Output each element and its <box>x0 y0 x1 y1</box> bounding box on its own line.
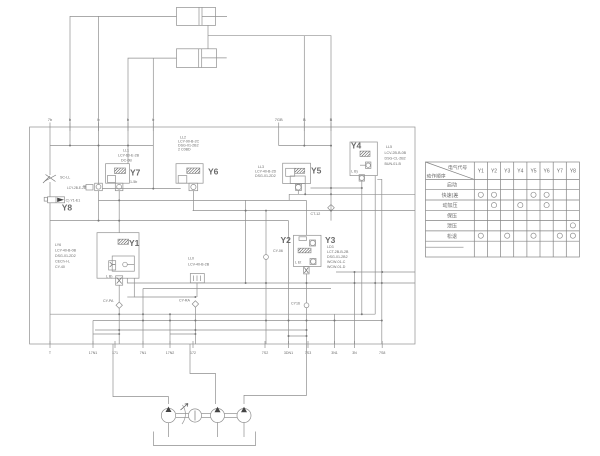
valve designator labels <box>62 141 362 213</box>
table circles <box>478 192 575 238</box>
svg-text:7S2: 7S2 <box>262 351 268 355</box>
wire mesh h220 <box>50 220 289 222</box>
component code labels upper <box>60 136 407 217</box>
svg-text:BUN-01-B: BUN-01-B <box>385 162 402 166</box>
valve block Y7 <box>106 164 130 184</box>
svg-text:CT-12: CT-12 <box>311 212 321 216</box>
svg-text:LCY-40-B-0B: LCY-40-B-0B <box>55 249 77 253</box>
svg-text:1-5b: 1-5b <box>130 180 137 184</box>
svg-text:T: T <box>49 351 52 355</box>
svg-text:保压: 保压 <box>447 212 457 219</box>
wire drop b4 <box>152 58 154 189</box>
svg-text:Y1: Y1 <box>478 169 484 175</box>
relief valve under Y3 <box>304 267 310 274</box>
valve block Y6 <box>176 164 203 184</box>
wire Y7 pilot left drop <box>98 191 100 221</box>
svg-text:Y2: Y2 <box>281 235 292 245</box>
junction dots group1 <box>69 145 363 222</box>
svg-text:b: b <box>152 117 155 122</box>
wire pump4 riser <box>244 330 307 404</box>
wire h297 left <box>127 296 134 298</box>
gauge CY-06 <box>264 211 269 344</box>
valve designator labels 2 <box>129 235 336 248</box>
gauge CY16 <box>304 200 309 330</box>
svg-text:CY-40: CY-40 <box>55 265 65 269</box>
check valve CY-RA <box>192 301 198 344</box>
tick b2 <box>127 123 129 132</box>
wire pump3 feed <box>190 344 216 404</box>
svg-text:Y8: Y8 <box>62 203 73 213</box>
svg-text:动加压: 动加压 <box>442 202 457 209</box>
svg-text:CY-06: CY-06 <box>273 249 283 253</box>
svg-text:LL1: LL1 <box>123 149 129 153</box>
svg-text:CECh-I-L: CECh-I-L <box>55 260 70 264</box>
wire 3N1 drop <box>334 314 336 344</box>
svg-text:Y4: Y4 <box>517 169 523 175</box>
svg-text:DSG-CL-2B2: DSG-CL-2B2 <box>385 157 406 161</box>
svg-text:LL5: LL5 <box>386 145 392 149</box>
relief valve under Y1 <box>116 276 123 285</box>
svg-text:LCY-40-B-2D: LCY-40-B-2D <box>255 170 277 174</box>
svg-text:Y1: Y1 <box>129 238 140 248</box>
svg-text:CY-PA: CY-PA <box>103 299 114 303</box>
wire mesh h210 <box>193 210 415 212</box>
wire Y7 pilot drop to Y1 <box>118 191 120 233</box>
table row labels <box>442 182 459 241</box>
svg-text:7N1: 7N1 <box>140 351 147 355</box>
svg-text:L B): L B) <box>351 170 357 174</box>
wire drop B <box>303 36 305 146</box>
wire CT-12 to 220 <box>330 211 332 221</box>
wire 3DN1 drop <box>288 221 290 344</box>
wire mesh h194 <box>289 194 415 200</box>
wire 7N1 drop <box>142 289 144 345</box>
wire Y1 to h297 <box>134 278 195 297</box>
svg-text:Y5: Y5 <box>311 166 322 176</box>
svg-text:7GB: 7GB <box>275 117 283 122</box>
tick b1 <box>98 123 100 132</box>
svg-text:b: b <box>127 117 130 122</box>
component code labels lower <box>55 170 358 306</box>
motor M <box>176 409 202 422</box>
check valve CY-PA <box>116 285 122 344</box>
wire mid drop <box>245 200 247 283</box>
svg-text:LY6: LY6 <box>55 243 61 247</box>
svg-text:3N: 3N <box>352 351 357 355</box>
wire h288 <box>143 288 331 290</box>
pilot valve Y6a <box>189 183 198 191</box>
tick B2 <box>330 123 332 132</box>
svg-text:Y5: Y5 <box>530 169 536 175</box>
svg-text:2 C0BD: 2 C0BD <box>178 148 191 152</box>
plugged port SC-LL <box>43 175 56 184</box>
svg-text:b: b <box>97 117 100 122</box>
svg-text:L Et: L Et <box>295 261 301 265</box>
cylinder CY2 (lower) <box>177 49 227 68</box>
pump P3 <box>225 407 252 437</box>
wire 3N drop <box>354 272 356 344</box>
svg-text:Y7: Y7 <box>557 169 563 175</box>
wire link 17N2-172 <box>170 333 195 335</box>
svg-text:CY-RA: CY-RA <box>179 299 190 303</box>
wire Y4 right drop 1 <box>374 176 376 315</box>
svg-text:动作顺序: 动作顺序 <box>427 173 446 180</box>
wire Y4 gauge down <box>361 181 363 314</box>
table header text <box>427 164 468 180</box>
variable arc <box>182 405 185 424</box>
wire 17N1 drop <box>92 321 94 345</box>
svg-text:Y4: Y4 <box>351 141 362 151</box>
pump P1 <box>161 407 175 438</box>
valve LL0 <box>190 274 204 298</box>
svg-text:7S3: 7S3 <box>305 351 311 355</box>
svg-text:Y3: Y3 <box>325 235 336 245</box>
wire cyl2 port to left <box>128 58 177 164</box>
svg-text:松退: 松退 <box>447 233 457 240</box>
gauge port under Y4 <box>359 175 364 181</box>
variable arrow <box>181 404 189 411</box>
tick 7b <box>69 123 71 132</box>
wire left T column <box>49 123 51 176</box>
wire node b2 <box>98 16 100 184</box>
valve block Y2 Y3 <box>294 235 322 266</box>
wire h315 <box>50 313 375 315</box>
pump P2 <box>202 407 225 437</box>
svg-text:DSG-01-2B2: DSG-01-2B2 <box>327 255 348 259</box>
svg-text:17N2: 17N2 <box>166 351 175 355</box>
wire link 3DN1-7S3 <box>289 335 307 337</box>
junction dots group2 <box>118 210 383 337</box>
pilot valve Y7a <box>83 183 102 191</box>
wire Y4 right drop 2 <box>377 179 382 344</box>
svg-text:Y6: Y6 <box>544 169 550 175</box>
svg-text:DSG-01-2D2: DSG-01-2D2 <box>55 254 76 258</box>
valve block Y4 <box>350 142 377 176</box>
wire cyl1 bottom to cyl2 top <box>207 25 209 48</box>
svg-text:WCW-01-C: WCW-01-C <box>327 260 346 264</box>
svg-text:LCV-40-B-2B: LCV-40-B-2B <box>188 263 210 267</box>
wire link 17N1-171 <box>93 333 119 335</box>
svg-text:Y3: Y3 <box>504 169 510 175</box>
tick B1 <box>303 123 305 132</box>
wire h330 <box>95 329 307 331</box>
svg-text:DSG-01-2D2: DSG-01-2D2 <box>255 174 276 178</box>
svg-text:7b: 7b <box>48 117 53 122</box>
svg-text:LCY-2B-E-2B: LCY-2B-E-2B <box>67 186 86 190</box>
svg-text:LCY-60-E-2B: LCY-60-E-2B <box>118 154 140 158</box>
svg-text:3N1: 3N1 <box>331 351 338 355</box>
svg-text:启动: 启动 <box>447 182 457 189</box>
cylinder CY1 (upper) <box>177 7 228 25</box>
wire Y1 out to h283 <box>127 278 415 283</box>
check valve CT-12 <box>328 205 335 212</box>
svg-text:LCT-2B-B-2B: LCT-2B-B-2B <box>327 250 349 254</box>
svg-text:LCV-2B-B-0B: LCV-2B-B-0B <box>385 151 407 155</box>
svg-text:电气代号: 电气代号 <box>448 164 467 171</box>
svg-text:DC-0B: DC-0B <box>121 159 132 163</box>
svg-text:Y7: Y7 <box>130 168 141 178</box>
svg-text:SC-LL: SC-LL <box>60 176 70 180</box>
svg-text:LL3: LL3 <box>258 165 264 169</box>
svg-text:Y6: Y6 <box>208 167 219 177</box>
wire Y5 to Y4 line <box>311 187 362 189</box>
wire 17N2 drop <box>169 314 171 344</box>
wire mesh h200 <box>99 199 307 201</box>
svg-text:7S8: 7S8 <box>379 351 385 355</box>
svg-text:Y8: Y8 <box>570 169 576 175</box>
tank <box>154 432 256 446</box>
node collector line right <box>279 145 331 147</box>
bus labels <box>49 351 386 355</box>
wire pilot link Y7-Y6 <box>102 188 180 190</box>
svg-text:3DN1: 3DN1 <box>284 351 293 355</box>
svg-text:泄压: 泄压 <box>447 223 457 230</box>
wire pump1 feed <box>113 344 169 404</box>
top tick labels <box>48 117 333 122</box>
svg-text:17N1: 17N1 <box>89 351 98 355</box>
valve block Y5 <box>283 163 311 183</box>
svg-text:172: 172 <box>190 351 196 355</box>
valve Y8 <box>44 182 64 344</box>
svg-text:CY16: CY16 <box>291 302 300 306</box>
svg-text:B: B <box>330 117 333 122</box>
node collector line left <box>50 145 153 147</box>
svg-text:WCW-01-D: WCW-01-D <box>327 265 346 269</box>
svg-text:LD3: LD3 <box>327 245 334 249</box>
wire 7GB stub <box>278 123 280 146</box>
wire h272 <box>336 271 415 273</box>
wire cyl1-cyl2 junction to right drop <box>208 36 331 211</box>
svg-text:LL0: LL0 <box>188 257 194 261</box>
table column headers <box>478 169 576 175</box>
svg-text:快速(差: 快速(差 <box>442 192 459 199</box>
tick b3 <box>152 123 154 132</box>
wire cyl1 rodless port to left bus <box>70 16 177 145</box>
svg-text:Y2: Y2 <box>491 169 497 175</box>
svg-text:171: 171 <box>112 351 118 355</box>
sequence table <box>426 162 580 257</box>
bus ticks bottom <box>50 341 382 348</box>
pilot valve Y7b <box>115 183 123 191</box>
svg-text:B: B <box>303 117 306 122</box>
valve block Y1 <box>97 233 139 279</box>
wire Y6 pilot drop <box>192 191 194 211</box>
wire h321 <box>93 320 382 322</box>
svg-text:L B): L B) <box>106 275 112 279</box>
svg-text:b: b <box>69 117 72 122</box>
relief valve under Y5 <box>296 184 306 195</box>
